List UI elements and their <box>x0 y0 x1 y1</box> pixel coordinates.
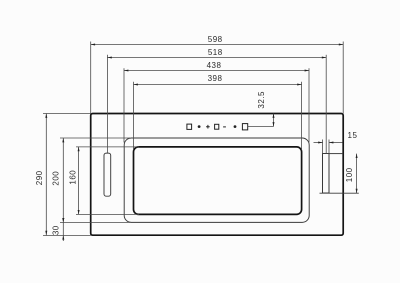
svg-text:100: 100 <box>345 167 354 182</box>
right outlet slot 15x100 <box>323 154 329 194</box>
control icon square 2 <box>215 124 219 129</box>
control icon dot 2 <box>234 125 237 128</box>
svg-text:438: 438 <box>207 61 222 70</box>
dimension 30 line below 200 <box>62 222 64 241</box>
dimension 15 extension lines <box>322 140 324 154</box>
front panel rounded rectangle <box>124 138 309 222</box>
control icon plus <box>206 125 210 129</box>
dimension 200 line <box>62 138 64 222</box>
slot top edge extension to body edge <box>329 153 343 155</box>
dimension 598 line <box>91 44 344 46</box>
dimension 32.5 line <box>273 114 275 127</box>
dimension 15 line with outside arrows <box>314 142 323 144</box>
hood body outer rectangle <box>91 114 344 236</box>
dimension 398 line <box>134 84 302 86</box>
control icon minus <box>223 126 226 128</box>
dimension 598 extension lines <box>90 42 92 114</box>
svg-text:598: 598 <box>208 35 223 44</box>
svg-text:15: 15 <box>348 131 358 140</box>
svg-text:290: 290 <box>35 170 44 185</box>
dimension 290 line <box>45 114 47 236</box>
glass panel rounded rectangle <box>134 147 302 215</box>
dimension 100 line <box>356 154 358 194</box>
left lamp capsule <box>104 153 111 196</box>
dimension 518 line <box>107 57 326 59</box>
dimension 290 extension lines <box>43 113 91 115</box>
svg-text:32.5: 32.5 <box>257 91 266 109</box>
dimension 518 extension lines to lamp and slot centres <box>106 55 108 153</box>
control icon square 1 <box>187 124 192 129</box>
dimension 160 line <box>78 147 80 215</box>
svg-text:398: 398 <box>208 74 223 83</box>
slot bottom extension line to 100 dim <box>320 192 359 194</box>
svg-text:160: 160 <box>68 170 77 185</box>
svg-text:30: 30 <box>52 225 61 235</box>
dimension 160 extension lines <box>76 146 139 148</box>
dimension 438 extension lines <box>123 68 125 142</box>
control icon dot 1 <box>198 125 201 128</box>
svg-text:518: 518 <box>208 48 223 57</box>
dimension 398 extension lines <box>133 82 135 150</box>
svg-text:200: 200 <box>52 171 61 186</box>
leader line from square 3 to 32.5 dimension <box>248 126 274 128</box>
control icon square 3 <box>242 124 247 130</box>
dimension 200 extension lines <box>60 137 130 139</box>
dimension 438 line <box>124 70 309 72</box>
